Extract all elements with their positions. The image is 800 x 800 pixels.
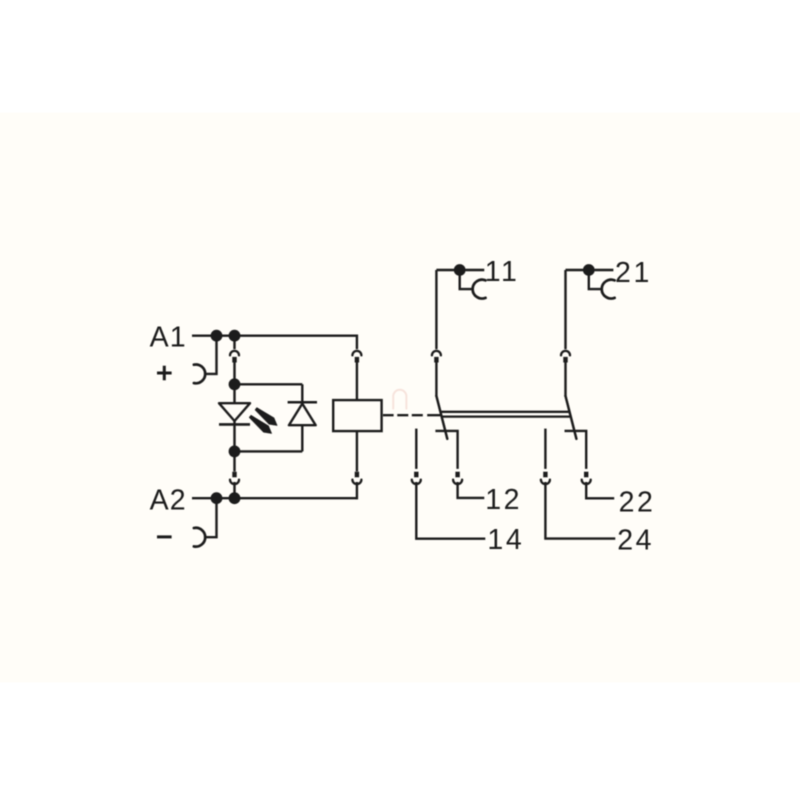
svg-text:12: 12 bbox=[485, 484, 522, 516]
clamp contact symbol 11 bbox=[473, 280, 486, 299]
mechanical link dashed line bbox=[383, 414, 440, 416]
relay coil K1 bbox=[333, 400, 381, 431]
junction dot LED top bbox=[229, 378, 241, 390]
wire 21 to clamp bbox=[589, 276, 602, 290]
junction dot LED bottom bbox=[229, 446, 241, 458]
NO contact wire 24 bbox=[544, 429, 546, 469]
disconnect point pole 1 bbox=[432, 351, 441, 356]
svg-text:21: 21 bbox=[615, 257, 652, 289]
freewheeling diode triangle bbox=[289, 404, 316, 426]
wire 11 to clamp bbox=[460, 276, 473, 290]
wire A1 to plus clamp bbox=[205, 336, 216, 374]
freewheeling diode cathode bar bbox=[288, 401, 317, 404]
wire terminal 14 bbox=[416, 482, 485, 539]
contact arm pole 2 bbox=[566, 396, 577, 439]
wire LED branch upper bbox=[233, 336, 235, 350]
wire freewheel branch bottom bbox=[235, 450, 303, 452]
disconnect point LED branch bottom bbox=[232, 472, 236, 478]
plus polarity mark bbox=[157, 372, 172, 375]
junction dot A2 clamp branch bbox=[211, 492, 223, 504]
svg-text:A1: A1 bbox=[150, 321, 187, 353]
minus polarity mark bbox=[157, 535, 172, 538]
wire terminal 12 bbox=[458, 482, 485, 498]
junction dot 21 bbox=[583, 264, 595, 276]
wire freewheel branch top bbox=[235, 383, 303, 385]
wire A1 corner down to coil bbox=[356, 335, 358, 350]
wire to LED anode node bbox=[233, 362, 235, 384]
wire coil top bbox=[356, 362, 358, 400]
LED light arrow 1 bbox=[255, 408, 277, 426]
disconnect point contact 12 bbox=[455, 472, 459, 478]
wire coil bottom bbox=[356, 431, 358, 471]
mechanical linkage bar bottom line bbox=[442, 415, 571, 417]
disconnect point LED branch top bbox=[230, 351, 239, 356]
contact arm pole 1 bbox=[436, 396, 447, 439]
LED cathode bar bbox=[219, 423, 250, 426]
disconnect point contact 22 bbox=[584, 472, 588, 478]
wire pole 1 to contact arm bbox=[435, 362, 437, 396]
mechanical linkage bar top line bbox=[440, 411, 569, 413]
clamp contact symbol minus bbox=[194, 528, 205, 547]
wire pole 1 vertical bbox=[435, 270, 437, 349]
disconnect point contact 14 bbox=[414, 472, 418, 478]
svg-text:22: 22 bbox=[619, 487, 656, 519]
svg-text:A2: A2 bbox=[150, 485, 187, 517]
disconnect point coil bottom bbox=[355, 472, 359, 478]
wire freewheel diode anode bbox=[301, 425, 303, 451]
wire terminal 22 bbox=[586, 482, 614, 498]
wire LED branch lower bbox=[233, 451, 235, 471]
junction dot 11 bbox=[454, 264, 466, 276]
wire LED cathode bbox=[233, 421, 235, 451]
faint watermark arch bbox=[393, 390, 406, 409]
svg-text:24: 24 bbox=[617, 524, 654, 556]
clamp contact symbol plus bbox=[194, 365, 205, 384]
wire to A2 bbox=[233, 482, 235, 498]
wire terminal 21 horizontal bbox=[566, 269, 614, 271]
wire coil to A2 bbox=[356, 482, 358, 499]
wire terminal 11 horizontal bbox=[436, 269, 484, 271]
wire LED anode bbox=[233, 384, 235, 403]
disconnect point coil top bbox=[352, 351, 361, 356]
wire pole 2 to contact arm bbox=[564, 362, 566, 396]
wire freewheel branch right bbox=[301, 384, 303, 402]
NO contact wire 14 bbox=[415, 429, 417, 469]
wire A2 horizontal bbox=[192, 497, 357, 499]
junction dot A1 LED branch bbox=[229, 330, 241, 342]
junction dot A1 clamp branch bbox=[211, 330, 223, 342]
svg-text:14: 14 bbox=[487, 524, 524, 556]
wire terminal 24 bbox=[545, 482, 615, 539]
wire pole 2 vertical bbox=[564, 270, 566, 349]
disconnect point contact 24 bbox=[543, 472, 547, 478]
NC contact seat 12 bbox=[435, 431, 457, 469]
svg-text:11: 11 bbox=[485, 256, 520, 288]
NC contact seat 22 bbox=[565, 431, 587, 469]
LED triangle bbox=[219, 403, 250, 421]
junction dot A2 LED branch bbox=[229, 492, 241, 504]
wire A2 to minus clamp bbox=[205, 498, 216, 537]
clamp contact symbol 21 bbox=[602, 280, 615, 299]
disconnect point pole 2 bbox=[561, 351, 570, 356]
wire A1 horizontal bbox=[192, 335, 357, 337]
LED light arrow 2 bbox=[249, 415, 271, 433]
